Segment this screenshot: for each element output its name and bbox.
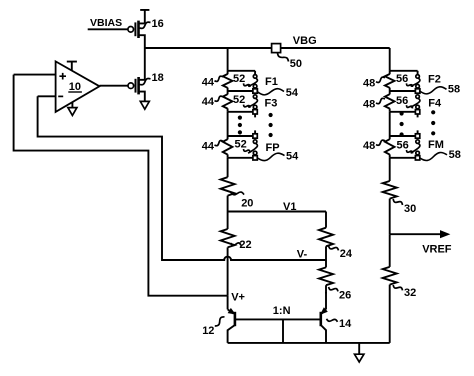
op-amp U10 triangle	[56, 61, 100, 112]
wire V- node to resistor 26	[325, 260, 327, 267]
svg-text:52: 52	[233, 94, 245, 106]
wire feedback from V- to op-amp - input (hops over left column)	[38, 96, 326, 260]
leader to label 20	[231, 192, 244, 195]
ellipsis dots left block F labels	[269, 113, 273, 137]
svg-text:54: 54	[286, 151, 299, 163]
transistor Q12 (PNP diode-connected)	[228, 296, 235, 343]
wire top node line (M16 drain to right block)	[145, 47, 390, 49]
wire resistor 24 to V- node	[325, 246, 327, 260]
leader to label 22	[231, 243, 241, 246]
svg-text:48: 48	[363, 140, 375, 152]
svg-text:VBIAS: VBIAS	[90, 17, 122, 29]
svg-text:58: 58	[449, 149, 461, 161]
right trim block rails and column	[390, 70, 418, 72]
svg-text:48: 48	[363, 99, 375, 111]
wire base line down to bottom rail	[282, 319, 284, 343]
svg-text:50: 50	[290, 58, 302, 70]
leader to label 58 (upper)	[420, 87, 446, 94]
svg-text:F2: F2	[428, 73, 441, 85]
svg-text:18: 18	[152, 72, 164, 84]
resistor 44 (bottom) with switch 52 FP	[223, 139, 233, 154]
svg-text:44: 44	[202, 141, 215, 153]
svg-text:56: 56	[396, 95, 408, 107]
wire V1 to resistor 22	[227, 212, 229, 230]
leader to label 54 (lower)	[258, 153, 285, 160]
leader to label 26	[329, 287, 338, 291]
svg-text:54: 54	[286, 87, 299, 99]
op-amp plus input marking	[59, 73, 66, 80]
svg-text:44: 44	[202, 76, 215, 88]
svg-text:44: 44	[202, 96, 215, 108]
svg-text:32: 32	[404, 287, 416, 299]
svg-text:26: 26	[339, 290, 351, 302]
leader to label 54 (upper)	[258, 89, 284, 95]
ground arrow below M18	[140, 101, 149, 109]
resistor 26	[319, 267, 333, 285]
resistor 48 (top) with switch 56 F2	[385, 74, 395, 88]
svg-text:52: 52	[235, 139, 247, 151]
wire resistor 30 to VREF node	[389, 199, 391, 235]
svg-text:56: 56	[396, 73, 408, 85]
svg-text:FP: FP	[266, 142, 280, 154]
resistor 30	[383, 181, 397, 199]
ground arrow below bottom rail	[358, 343, 360, 354]
wire resistor 26 down to Q14 emitter	[325, 285, 327, 293]
svg-text:52: 52	[233, 73, 245, 85]
svg-text:V+: V+	[231, 291, 245, 303]
wire bottom rail	[228, 342, 390, 344]
leader to label 58 (lower)	[420, 152, 447, 160]
svg-text:V1: V1	[283, 201, 296, 213]
wire resistor 20 to V1 node	[227, 196, 229, 212]
node 50 square on VBG line	[272, 44, 281, 53]
leader to label 24	[329, 246, 339, 250]
leader to label 30	[393, 199, 402, 205]
svg-text:12: 12	[202, 325, 214, 337]
svg-text:VREF: VREF	[422, 244, 452, 256]
wire resistor 22 down to V+ node (V- line hops over)	[227, 247, 229, 295]
svg-text:58: 58	[448, 84, 460, 96]
resistor 48 (middle) with switch 56 F4	[385, 94, 395, 108]
resistor 44 (top) with switch 52 F1	[223, 74, 233, 88]
leader to label 16	[140, 22, 151, 28]
resistor 20	[221, 177, 235, 195]
svg-text:1:N: 1:N	[273, 305, 291, 317]
wire right column below block	[389, 158, 391, 181]
resistor 22	[221, 229, 235, 247]
wire VREF output with arrow	[390, 233, 442, 235]
wire feedback from V+ to op-amp + input	[14, 75, 228, 296]
ellipsis dots right block cells	[400, 111, 404, 136]
ellipsis dots right block F labels	[431, 110, 435, 135]
svg-text:F3: F3	[265, 97, 278, 109]
transistor Q14 (PNP diode-connected)	[321, 292, 327, 343]
left trim block rails and column	[228, 70, 256, 72]
resistor 32	[383, 267, 397, 285]
ellipsis dots left block cells	[238, 116, 242, 135]
wire VREF node to resistor 32	[389, 234, 391, 267]
resistor 48 (bottom) with switch 56 FM	[385, 139, 395, 154]
op-amp minus input marking	[58, 95, 63, 97]
wire VBIAS to M16 gate	[88, 28, 128, 30]
leader to label 14	[327, 319, 338, 322]
svg-text:16: 16	[152, 18, 164, 30]
svg-text:24: 24	[340, 248, 353, 260]
svg-text:30: 30	[404, 203, 416, 215]
svg-text:F4: F4	[428, 97, 442, 109]
svg-text:V-: V-	[297, 248, 308, 260]
svg-text:48: 48	[363, 77, 375, 89]
wire base line Q12-Q14	[235, 318, 321, 320]
svg-text:22: 22	[239, 239, 251, 251]
power supply bar (VDD) above M16	[140, 10, 149, 24]
transistor M16 (PMOS)	[128, 21, 145, 48]
leader to label 50	[278, 53, 289, 61]
wire left column below block	[227, 158, 229, 177]
svg-text:VBG: VBG	[293, 35, 317, 47]
leader to label 12	[215, 317, 225, 326]
svg-text:F1: F1	[265, 76, 278, 88]
wire resistor 32 to bottom rail	[389, 285, 391, 343]
svg-text:20: 20	[241, 198, 253, 210]
wire op-amp + input stub	[14, 74, 56, 76]
leader to label 32	[393, 285, 402, 290]
resistor 44 (middle) with switch 52 F3	[223, 94, 233, 108]
svg-text:56: 56	[397, 140, 409, 152]
wire op-amp - input stub	[38, 95, 56, 97]
leader to label 18	[140, 79, 151, 85]
wire op-amp output to M18 gate	[100, 85, 129, 87]
svg-text:FM: FM	[428, 139, 444, 151]
wire V1 line	[228, 211, 326, 213]
wire V1 down to resistor 24	[325, 212, 327, 228]
resistor 24	[319, 228, 333, 247]
op-amp supply bar	[67, 62, 77, 71]
op-amp ground arrow	[71, 102, 73, 107]
transistor M18 (PMOS)	[128, 48, 145, 101]
svg-text:14: 14	[339, 318, 352, 330]
